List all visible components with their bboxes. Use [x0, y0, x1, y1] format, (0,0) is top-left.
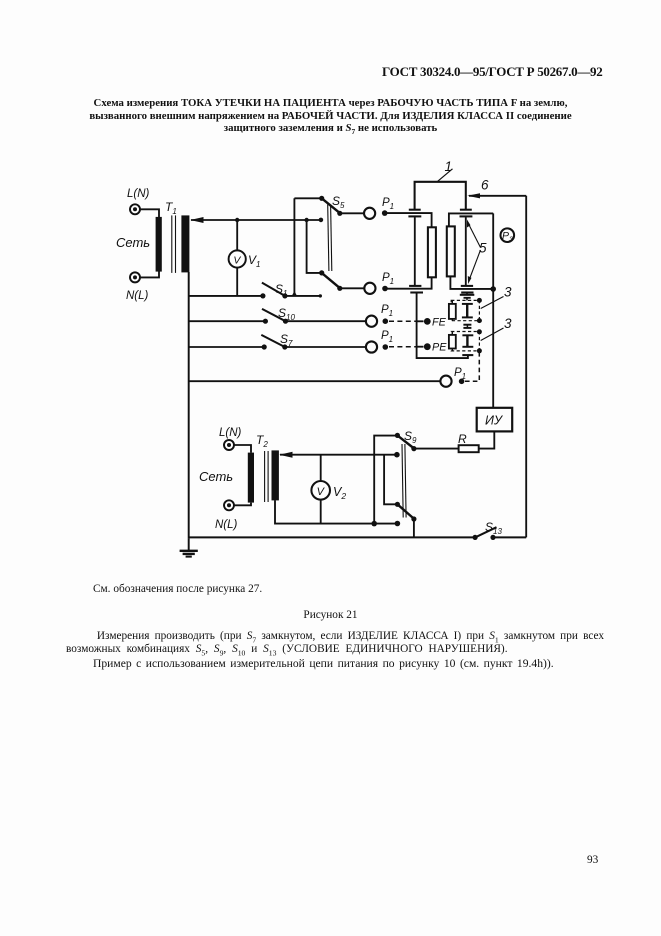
node P1 on S10 row [383, 318, 389, 324]
node MD lower corners [477, 329, 482, 334]
svg-text:S13: S13 [485, 520, 502, 536]
svg-text:P1: P1 [381, 304, 393, 318]
svg-text:V1: V1 [248, 253, 260, 269]
label 3 lower with leader [481, 328, 504, 341]
wire R to S9 [414, 448, 459, 450]
svg-text:S1: S1 [275, 282, 287, 298]
wire dashed P1 to MD chain [465, 351, 479, 381]
switch S13 [473, 527, 527, 540]
svg-text:N(L): N(L) [215, 519, 238, 531]
svg-text:P3: P3 [502, 230, 514, 243]
switch S9 mechanical link [402, 444, 406, 518]
svg-text:PE: PE [432, 342, 447, 354]
node V1 top junction [235, 218, 239, 222]
wire terminal N(L) to T1 [140, 271, 159, 277]
figure caption [0, 609, 661, 621]
svg-text:Сеть: Сеть [116, 235, 150, 250]
node MD upper corners [477, 298, 482, 303]
transformer T1 [156, 215, 190, 273]
wire right branch mid [465, 217, 467, 285]
wire T1 secondary top with tap arrow [190, 217, 321, 223]
svg-text:V: V [233, 254, 241, 266]
wire dashed P1 to FE [389, 320, 417, 322]
capacitor lower-left [409, 286, 423, 293]
wire bottom measuring row [189, 380, 441, 382]
node P1 lower [382, 286, 388, 292]
voltmeter V1 [229, 220, 246, 296]
wire stub to FE [417, 320, 424, 322]
ground [180, 538, 198, 556]
wire row S1 [189, 295, 263, 297]
svg-text:FE: FE [432, 317, 447, 329]
wire T2 secondary top with tap arrow [279, 452, 397, 458]
svg-text:P1: P1 [382, 197, 394, 211]
svg-text:Сеть: Сеть [199, 469, 233, 484]
label 5 with arrows [467, 220, 481, 285]
terminal L(N) of T2 [224, 440, 234, 450]
wire 6 (external voltage) with arrow [467, 193, 526, 198]
svg-text:S7: S7 [280, 332, 293, 348]
node IU line junction [490, 286, 496, 292]
measuring device MD lower (3) [449, 332, 480, 351]
wire vertical to IU [492, 213, 494, 407]
wire IU bottom to R [479, 431, 495, 448]
svg-text:N(L): N(L) [126, 290, 149, 302]
wire dashed P1 to PE [389, 346, 417, 348]
svg-text:S9: S9 [404, 429, 417, 445]
node P1 bottom [459, 379, 465, 385]
resistor left (patient impedance) [428, 227, 436, 277]
label 1 with leader [438, 169, 453, 182]
node PE [424, 343, 431, 350]
wire main vertical from T1 secondary [188, 272, 190, 538]
terminal P1 lower (S5) [364, 283, 375, 294]
switch S9 lower pole [384, 455, 416, 538]
svg-text:5: 5 [479, 241, 487, 256]
svg-text:P1: P1 [382, 272, 394, 286]
switch S1 [260, 283, 322, 299]
svg-text:3: 3 [504, 316, 512, 331]
wire N(L) to T2 [234, 503, 251, 506]
capacitor lower-right [461, 286, 474, 293]
capacitor link between MD boxes [463, 325, 471, 328]
node FE [424, 318, 431, 325]
switch S10 [262, 309, 366, 324]
wire right outer vertical [525, 196, 527, 538]
voltmeter V2 [311, 455, 330, 524]
caption: see designations [93, 583, 262, 595]
terminal P1 on S7 row [366, 341, 377, 352]
switch S9 (reversing, upper pole) [374, 433, 416, 524]
label 3 upper with leader [481, 297, 504, 309]
wire row S7 [189, 346, 265, 348]
node S5 upper back contact [319, 218, 324, 223]
wire ground bus bottom [189, 536, 475, 538]
terminal P1 upper (S5) [364, 208, 375, 219]
transformer T2 [248, 450, 279, 502]
wire terminal L(N) to T1 [140, 209, 159, 217]
wire P1 upper to left resistor top [387, 213, 432, 227]
enclosure box 1 top [415, 182, 466, 210]
node P1 on S7 row [383, 344, 389, 350]
svg-text:S10: S10 [278, 306, 295, 322]
terminal P3 [501, 228, 515, 242]
wire lower-left branch to earth rail [417, 293, 468, 358]
svg-text:V2: V2 [333, 485, 346, 501]
wire T2 secondary bottom [275, 500, 397, 523]
title line 3 [0, 122, 661, 134]
switch S5 mechanical link [328, 205, 332, 272]
node S5 inner junction [304, 218, 308, 222]
svg-text:6: 6 [481, 178, 489, 193]
wire L(N) to T2 [234, 445, 251, 453]
paragraph line 3 [93, 657, 554, 670]
svg-text:ИУ: ИУ [485, 414, 504, 428]
paragraph line 2 [66, 643, 508, 655]
svg-text:1: 1 [445, 159, 453, 174]
svg-text:L(N): L(N) [127, 188, 150, 200]
svg-text:S5: S5 [332, 194, 345, 210]
svg-text:R: R [458, 432, 467, 446]
wire right branch bottom to IU line [450, 276, 493, 289]
terminal N(L) [130, 272, 140, 282]
capacitor plate under lower MD [462, 354, 473, 356]
node S9 back contact upper [394, 452, 400, 458]
capacitor upper-right [460, 210, 473, 217]
title line 1 [0, 97, 661, 109]
terminal L(N) [130, 204, 140, 214]
terminal P1 on S10 row [366, 316, 377, 327]
measuring instrument IU box [477, 408, 513, 432]
node S9 outer vertical to T2 bottom wire [371, 521, 377, 527]
svg-text:P1: P1 [381, 330, 393, 344]
svg-text:T1: T1 [165, 200, 177, 216]
switch S5 lower pole [307, 220, 365, 291]
paragraph line 1 [66, 630, 604, 642]
switch S5 (reversing, upper pole) [292, 196, 365, 297]
svg-text:T2: T2 [256, 433, 268, 449]
resistor right (patient impedance) [447, 226, 455, 276]
node S9 back contact lower [395, 521, 401, 527]
wire row S10 [189, 320, 266, 322]
wire right branch top to IU line [449, 213, 493, 226]
capacitor upper-left [408, 210, 421, 217]
wire stub to PE [417, 346, 424, 348]
svg-text:P1: P1 [454, 367, 466, 381]
measuring device MD upper (3) [449, 293, 480, 321]
header [382, 64, 600, 80]
svg-text:3: 3 [504, 285, 512, 300]
terminal N(L) of T2 [224, 500, 234, 510]
node P1 upper [382, 210, 388, 216]
wire P1 lower to left resistor bottom [387, 277, 431, 288]
switch S7 [261, 335, 366, 350]
wire left branch mid [414, 217, 416, 285]
title line 2 [0, 110, 661, 122]
terminal P1 bottom [440, 376, 451, 387]
page number [587, 854, 598, 866]
resistor R [459, 445, 479, 452]
svg-text:L(N): L(N) [219, 427, 242, 439]
